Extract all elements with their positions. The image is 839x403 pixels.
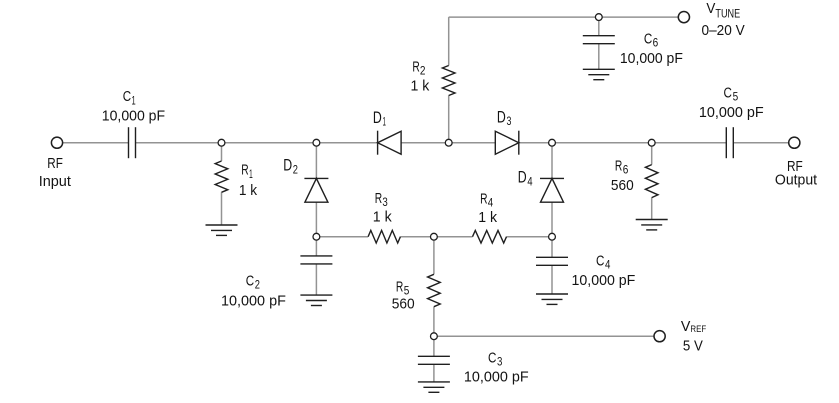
svg-text:C: C <box>246 273 255 290</box>
svg-text:R: R <box>615 157 623 174</box>
wire main line D3 to C5 <box>519 142 727 144</box>
ground under C6 <box>583 69 615 79</box>
svg-text:C: C <box>488 349 497 366</box>
ground under C2 <box>300 295 332 305</box>
capacitor C6 <box>583 36 615 44</box>
svg-text:10,000 pF: 10,000 pF <box>464 368 529 385</box>
terminal RF Input <box>51 137 62 148</box>
svg-text:R: R <box>396 278 404 295</box>
wire C3 branch vertical <box>433 336 435 382</box>
svg-text:10,000 pF: 10,000 pF <box>620 50 683 67</box>
svg-text:2: 2 <box>255 278 260 292</box>
wire R2 branch vertical <box>448 17 450 143</box>
node R4-D4-C4 junction <box>549 233 556 240</box>
wire C4 branch vertical <box>551 237 553 294</box>
svg-text:C: C <box>123 88 132 105</box>
node D4 junction <box>549 139 556 146</box>
diode D4 <box>540 178 564 202</box>
label R6 value <box>611 177 634 194</box>
label C1 value <box>102 107 165 124</box>
svg-text:1 k: 1 k <box>239 182 258 199</box>
svg-text:2: 2 <box>293 162 298 176</box>
svg-text:6: 6 <box>623 163 629 177</box>
resistor R1 <box>215 161 228 192</box>
label C4 value <box>572 272 636 289</box>
wire main line D1 to D3 <box>401 142 495 144</box>
wire D4 branch vertical <box>551 143 553 237</box>
resistor R6 <box>645 165 658 198</box>
label C3 <box>488 349 503 368</box>
ground under C4 <box>536 294 568 304</box>
label RF Output <box>775 158 818 189</box>
diode D3 <box>495 131 519 155</box>
wire R6 branch vertical <box>651 143 653 220</box>
label VTUNE value <box>702 22 745 39</box>
wire top line to VTUNE <box>449 16 679 18</box>
label C5 <box>724 84 739 103</box>
label C6 <box>644 31 659 50</box>
ground under C3 <box>418 382 450 392</box>
node center R2 junction <box>445 139 452 146</box>
label VTUNE <box>706 0 740 20</box>
node R5-C3-VREF junction <box>431 333 438 340</box>
svg-text:D: D <box>373 109 382 127</box>
svg-text:560: 560 <box>611 177 634 194</box>
label D3 <box>497 108 512 128</box>
svg-text:10,000 pF: 10,000 pF <box>102 107 165 124</box>
wire main line C5 to output <box>733 142 789 144</box>
svg-text:4: 4 <box>488 196 494 210</box>
svg-text:R: R <box>241 162 249 179</box>
svg-text:560: 560 <box>392 296 415 313</box>
diode D2 <box>304 178 328 202</box>
svg-text:5: 5 <box>733 89 739 103</box>
label C2 value <box>221 293 286 310</box>
wire R5 branch vertical <box>433 237 435 337</box>
label R1 <box>241 162 253 181</box>
wire mid line D2 to R3 <box>316 236 368 238</box>
label R5 value <box>392 296 415 313</box>
svg-text:1: 1 <box>132 93 136 107</box>
wire D2 branch vertical <box>315 143 317 237</box>
svg-text:V: V <box>681 318 691 335</box>
svg-text:3: 3 <box>497 355 503 369</box>
label R3 <box>375 190 388 209</box>
svg-text:10,000 pF: 10,000 pF <box>221 293 286 310</box>
label R2 value <box>411 78 430 95</box>
ground under R6 <box>636 220 668 230</box>
capacitor C5 <box>726 127 733 158</box>
label R2 <box>412 58 425 77</box>
label R3 value <box>373 208 392 225</box>
label R6 <box>615 157 629 176</box>
resistor R4 <box>473 230 507 243</box>
label C6 value <box>620 50 683 67</box>
label C1 <box>123 88 136 107</box>
svg-text:5 V: 5 V <box>683 337 703 354</box>
svg-text:V: V <box>706 0 715 17</box>
svg-text:RF: RF <box>47 155 63 172</box>
wire main line input section <box>62 142 128 144</box>
label D1 <box>373 109 386 129</box>
terminal RF Output <box>789 137 800 148</box>
label C3 value <box>464 368 529 385</box>
svg-text:D: D <box>497 108 506 126</box>
wire R1 branch vertical <box>221 143 223 225</box>
wire C2 branch vertical <box>315 237 317 295</box>
svg-text:R: R <box>375 190 383 207</box>
svg-text:1 k: 1 k <box>478 209 497 226</box>
label VREF <box>681 318 706 335</box>
svg-text:10,000 pF: 10,000 pF <box>572 272 636 289</box>
wire main line C1 to D1 <box>136 142 378 144</box>
svg-text:6: 6 <box>653 36 659 50</box>
svg-text:1 k: 1 k <box>411 78 430 95</box>
node D2 junction <box>313 139 320 146</box>
label R4 <box>480 191 493 210</box>
node D2-C2-R3 junction <box>313 233 320 240</box>
svg-text:4: 4 <box>527 175 532 189</box>
svg-text:C: C <box>644 31 653 48</box>
svg-text:4: 4 <box>605 258 611 272</box>
capacitor C4 <box>536 257 568 265</box>
wire C6 branch vertical <box>598 17 600 69</box>
label VREF value <box>683 337 703 354</box>
label C5 value <box>699 104 764 121</box>
svg-text:C: C <box>724 84 733 101</box>
label D2 <box>283 157 298 177</box>
svg-text:3: 3 <box>507 114 512 128</box>
wire bottom line to VREF <box>434 335 654 337</box>
node R1 junction <box>218 139 225 146</box>
resistor R3 <box>368 230 400 243</box>
resistor R5 <box>428 274 441 306</box>
ground under R1 <box>206 225 238 235</box>
label R4 value <box>478 209 497 226</box>
label D4 <box>518 169 533 189</box>
diode D1 <box>378 131 402 155</box>
terminal VTUNE <box>678 12 689 23</box>
svg-text:10,000 pF: 10,000 pF <box>699 104 764 121</box>
label C4 <box>596 253 611 272</box>
svg-text:TUNE: TUNE <box>715 6 740 20</box>
svg-text:Input: Input <box>39 173 72 190</box>
svg-text:R: R <box>480 191 488 208</box>
svg-text:1: 1 <box>383 115 387 129</box>
capacitor C1 <box>129 127 136 158</box>
svg-text:Output: Output <box>775 172 818 189</box>
svg-text:1: 1 <box>249 167 253 181</box>
node C6 junction <box>595 14 602 21</box>
svg-text:D: D <box>518 169 527 187</box>
svg-text:R: R <box>412 58 420 75</box>
label R1 value <box>239 182 258 199</box>
node R6 junction <box>648 139 655 146</box>
svg-text:2: 2 <box>420 64 426 78</box>
svg-text:D: D <box>283 157 292 175</box>
svg-text:3: 3 <box>382 195 388 209</box>
terminal VREF <box>654 331 665 342</box>
svg-text:1 k: 1 k <box>373 208 392 225</box>
node R3-R4-R5 junction <box>431 233 438 240</box>
label RF Input <box>39 155 72 190</box>
svg-text:0–20 V: 0–20 V <box>702 22 745 39</box>
resistor R2 <box>442 66 455 96</box>
label R5 <box>396 278 410 297</box>
capacitor C2 <box>300 256 332 264</box>
wire mid line R3 to R4 <box>400 236 472 238</box>
wire mid line R4 to D4 <box>507 236 553 238</box>
label C2 <box>246 273 260 292</box>
svg-text:REF: REF <box>690 324 706 335</box>
svg-text:C: C <box>596 253 605 270</box>
capacitor C3 <box>418 356 450 364</box>
